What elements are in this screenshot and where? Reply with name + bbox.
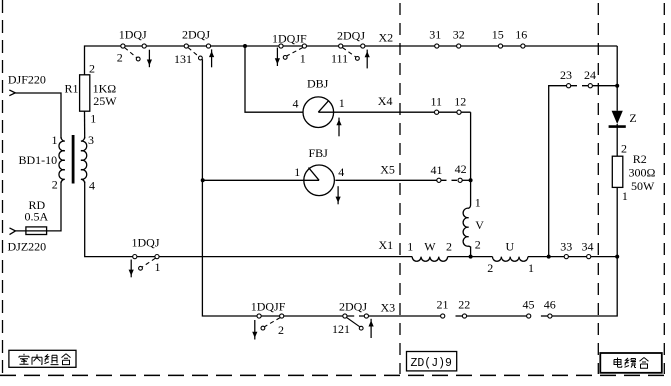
wire X1 U coil to right vertical <box>528 256 617 258</box>
svg-text:121: 121 <box>332 322 350 336</box>
arrow down at 1DQJ top <box>147 50 152 67</box>
svg-text:11: 11 <box>431 95 443 109</box>
arrow up at 2DQJ-131 <box>209 49 214 67</box>
node junction X1 / R2 vertical <box>615 255 619 259</box>
resistor R1 <box>80 75 90 111</box>
wire 24 to x617 junction <box>590 85 617 87</box>
svg-text:1: 1 <box>52 133 58 147</box>
svg-text:FBJ: FBJ <box>309 146 329 160</box>
diode Z <box>609 111 626 127</box>
svg-text:131: 131 <box>174 52 192 66</box>
wire V coil bottom to X1 <box>470 247 472 257</box>
terminal 23 <box>567 84 571 88</box>
svg-text:DJF220: DJF220 <box>8 72 46 86</box>
contact 2DQJ top-131 (back, up arrow) <box>184 44 210 60</box>
svg-text:1: 1 <box>475 195 481 209</box>
svg-text:1: 1 <box>622 189 628 203</box>
svg-text:U: U <box>506 240 515 254</box>
contact 2DQJ bottom-121 (back, up arrow) <box>343 314 369 330</box>
boundary dashed cable-box right <box>663 3 665 374</box>
svg-text:23: 23 <box>560 68 572 82</box>
resistor R2 <box>612 156 623 187</box>
svg-text:1DQJ: 1DQJ <box>132 235 160 249</box>
wire 23-24 dashed link <box>571 85 588 87</box>
svg-text:2: 2 <box>52 178 58 192</box>
node junction top bus / DBJ feed <box>243 44 247 48</box>
relay FBJ <box>304 165 335 196</box>
terminal 42 <box>458 178 462 182</box>
inductor V <box>463 205 470 248</box>
terminal 11 <box>435 110 439 114</box>
terminal 34 <box>587 255 591 259</box>
wire DJF220 to transformer pin1 <box>15 93 61 139</box>
svg-text:24: 24 <box>584 68 596 82</box>
svg-text:2: 2 <box>446 239 452 253</box>
svg-text:1DQJF: 1DQJF <box>251 300 286 314</box>
contact 1DQJ top (front, down arrow) <box>121 44 146 61</box>
svg-text:X2: X2 <box>379 30 394 44</box>
svg-text:2: 2 <box>621 142 627 156</box>
contact 1DQJF bottom (mirrored, down arrow) <box>257 314 284 330</box>
wire X1 between W and U coils <box>448 256 493 258</box>
transformer BD1-10 left winding <box>59 137 65 183</box>
svg-text:R2: R2 <box>633 152 647 166</box>
wire 2DQJ arm vertical to bottom branch <box>202 59 354 316</box>
svg-text:X5: X5 <box>380 163 395 177</box>
svg-text:300Ω: 300Ω <box>629 166 656 180</box>
svg-text:46: 46 <box>544 298 556 312</box>
terminal 22 <box>462 314 466 318</box>
svg-text:4: 4 <box>89 178 95 192</box>
svg-text:DBJ: DBJ <box>307 77 329 91</box>
fuse RD <box>26 227 47 235</box>
svg-text:DJZ220: DJZ220 <box>8 239 47 253</box>
contact 2DQJ top-111 (back, up arrow) <box>339 44 365 60</box>
svg-text:R1: R1 <box>65 81 79 95</box>
wire top bus y=46 <box>85 46 618 75</box>
glyph 组 <box>45 354 59 364</box>
svg-text:15: 15 <box>492 28 504 42</box>
wire 42 to V junction <box>462 179 471 181</box>
svg-text:2DQJ: 2DQJ <box>182 28 210 42</box>
glyph 合 <box>62 354 71 365</box>
svg-text:BD1-10: BD1-10 <box>19 153 58 167</box>
glyph 内 <box>32 354 42 365</box>
svg-text:25W: 25W <box>93 94 117 108</box>
svg-text:34: 34 <box>582 239 594 253</box>
svg-text:X3: X3 <box>381 301 396 315</box>
svg-text:33: 33 <box>560 239 572 253</box>
svg-text:32: 32 <box>453 28 465 42</box>
wire 22 to 45 <box>467 315 527 317</box>
svg-text:2: 2 <box>117 51 123 65</box>
svg-text:2: 2 <box>475 237 481 251</box>
transformer BD1-10 core <box>72 135 75 184</box>
svg-text:1KΩ: 1KΩ <box>93 81 117 95</box>
svg-text:2: 2 <box>89 61 95 75</box>
wire DBJ feed vertical <box>245 46 303 112</box>
inductor W <box>412 257 447 262</box>
svg-text:22: 22 <box>458 298 470 312</box>
svg-text:50W: 50W <box>631 179 655 193</box>
glyph 缆 <box>625 358 637 368</box>
arrow down at 1DQJF bottom <box>252 320 257 340</box>
terminal 31 <box>435 44 439 48</box>
node junction 23-24 / right vertical <box>615 84 619 88</box>
svg-text:42: 42 <box>455 162 467 176</box>
svg-text:ZD(J)9: ZD(J)9 <box>411 357 453 370</box>
wire winding pin4 to X1 line <box>85 182 413 257</box>
terminal 41 <box>437 178 441 182</box>
svg-text:1: 1 <box>90 112 96 126</box>
arrow up at DBJ pin1 <box>336 118 341 137</box>
wire 21-22 dashed link <box>456 315 463 317</box>
wire DBJ right to X4 terminals <box>334 111 471 113</box>
svg-text:1: 1 <box>294 165 300 179</box>
terminal 33 <box>564 255 568 259</box>
box ZD(J)9 <box>407 352 457 371</box>
svg-text:41: 41 <box>431 163 443 177</box>
wire right vertical x=617 top to Z diode <box>616 46 618 111</box>
terminal 45 <box>527 314 531 318</box>
glyph 合 <box>640 358 649 369</box>
terminal 46 <box>548 314 552 318</box>
terminal DJF220 <box>9 90 15 96</box>
inductor U <box>492 257 527 262</box>
box 室内组合 <box>9 350 76 367</box>
svg-text:111: 111 <box>331 51 348 65</box>
wire R1 bottom to winding pin3 <box>84 111 86 138</box>
wire 45-46 dashed link <box>541 315 548 317</box>
wire 23/24 branch <box>549 86 571 257</box>
terminal 15 <box>498 44 502 48</box>
wire 2DQJ-121 right circle to terminal 21 <box>359 315 441 317</box>
arrow down at 1DQJ bottom <box>129 260 134 278</box>
wire FBJ left <box>203 179 304 181</box>
boundary dashed X2-X3 column <box>399 3 401 374</box>
svg-text:4: 4 <box>338 165 344 179</box>
terminal 16 <box>521 44 525 48</box>
arrow up at 2DQJ-111 <box>365 50 370 69</box>
node junction 42 / X4 vertical <box>469 178 473 182</box>
terminal 32 <box>457 44 461 48</box>
node junction FBJ / 2DQJ arm vertical <box>201 178 205 182</box>
svg-text:W: W <box>424 240 436 254</box>
terminal DJZ220 <box>10 228 16 235</box>
arrow down at 1DQJF top <box>275 48 280 66</box>
terminal 24 <box>588 84 592 88</box>
svg-text:1: 1 <box>407 239 413 253</box>
svg-text:2: 2 <box>278 323 284 337</box>
wire FBJ right to 41 <box>335 179 437 181</box>
boundary dashed cable-box left <box>597 3 599 374</box>
svg-text:Z: Z <box>629 111 636 125</box>
svg-text:12: 12 <box>454 95 466 109</box>
svg-text:X4: X4 <box>378 94 393 108</box>
svg-text:4: 4 <box>293 97 299 111</box>
wire X4 corner down to X5 junction <box>470 112 472 205</box>
terminal 12 <box>457 110 461 114</box>
box 电缆合 <box>600 353 662 373</box>
border bottom dashed <box>0 374 671 376</box>
wire 41-42 dashed link <box>441 179 458 181</box>
arrow down at FBJ pin4 <box>336 186 341 204</box>
wire Z diode to R2 <box>616 124 618 156</box>
svg-text:21: 21 <box>437 298 449 312</box>
wire DJZ220 fuse to winding pin2 <box>16 182 62 231</box>
svg-text:16: 16 <box>515 28 527 42</box>
glyph 电 <box>614 358 622 368</box>
node junction V bottom / X1 <box>469 255 473 259</box>
transformer BD1-10 right winding <box>81 137 87 183</box>
svg-text:1: 1 <box>300 52 306 66</box>
contact 1DQJ bottom (X1 line, down arrow) <box>133 255 159 271</box>
svg-text:2DQJ: 2DQJ <box>339 300 367 314</box>
contact 1DQJF top (mirrored, down arrow) <box>279 44 307 59</box>
relay DBJ <box>303 97 334 128</box>
svg-text:0.5A: 0.5A <box>25 210 49 224</box>
svg-text:1DQJ: 1DQJ <box>119 28 147 42</box>
border left dashed <box>2 0 4 376</box>
svg-text:2: 2 <box>487 261 493 275</box>
terminals (open circles) <box>435 44 593 318</box>
svg-text:1: 1 <box>155 260 161 274</box>
svg-text:V: V <box>475 218 484 232</box>
terminal 21 <box>441 314 445 318</box>
svg-text:X1: X1 <box>379 238 394 252</box>
node junction X1 / 23-24 vertical <box>547 255 551 259</box>
glyph 室 <box>19 354 29 365</box>
arrow up at 2DQJ-121 <box>369 319 374 338</box>
svg-text:31: 31 <box>429 28 441 42</box>
svg-text:45: 45 <box>523 298 535 312</box>
svg-text:1DQJF: 1DQJF <box>272 32 307 46</box>
svg-text:3: 3 <box>88 133 94 147</box>
svg-text:1: 1 <box>528 261 534 275</box>
svg-text:2DQJ: 2DQJ <box>337 29 365 43</box>
svg-text:1: 1 <box>339 96 345 110</box>
wire R2 bottom to bottom branch corner <box>551 187 617 316</box>
